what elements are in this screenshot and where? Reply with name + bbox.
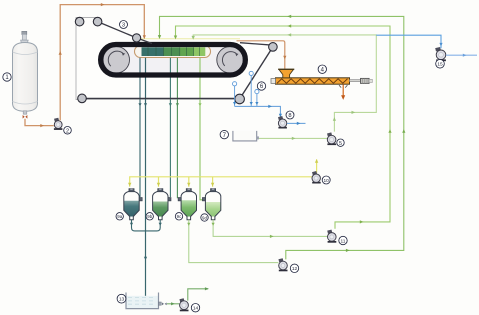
wire wash water to pump 15 [376, 35, 441, 48]
wash line C belt to pump 5 loop [193, 35, 376, 132]
wash spray nozzle b [249, 71, 253, 75]
wire feed vessel to pump 2 [25, 119, 54, 126]
svg-text:5: 5 [339, 141, 342, 147]
pump P15 [435, 47, 446, 61]
svg-text:3: 3 [122, 23, 125, 29]
screw drive bearing [361, 78, 370, 83]
label 7 [220, 130, 228, 138]
svg-text:9c: 9c [177, 214, 182, 219]
pump P11 [327, 230, 336, 243]
svg-text:10: 10 [324, 178, 330, 184]
vacuum drop arrows [128, 183, 214, 187]
receiver 9c [178, 189, 196, 220]
label 8 [286, 111, 294, 119]
wire nozzle drains to filtrate header [235, 76, 257, 107]
cloth path wire discharge diagonal [240, 47, 273, 99]
belt drive roller left [103, 47, 129, 73]
wire receiver 9d to pump 11 [213, 220, 327, 237]
cloth discharge roller 4 [269, 43, 278, 52]
belt filter frame panel [76, 18, 277, 101]
wire cake discharge to screw hopper [237, 41, 285, 69]
label 9d [201, 214, 208, 221]
vacuum pump 10 vent [316, 159, 318, 172]
belt filter U3 interior [101, 45, 246, 76]
cake section 1 [142, 47, 164, 56]
vacuum box capsule [135, 46, 211, 58]
wire trough 7 to pump 5 [259, 137, 327, 139]
label 1 [3, 73, 11, 81]
wire filtrate header to pump 8 [235, 106, 281, 118]
feed vessel T1 [13, 31, 38, 114]
svg-text:9a: 9a [117, 214, 122, 219]
label 5 [337, 139, 344, 147]
receiver 9d [202, 189, 220, 220]
label 9c [175, 213, 182, 220]
filtrate tank 13 [126, 293, 159, 309]
label 9b [146, 213, 153, 220]
wire pump 2 discharge to belt feed [60, 5, 144, 121]
cloth path wire top-right [240, 43, 273, 46]
receiver 9b [153, 189, 171, 220]
wire tank 13 to pump 14 [167, 303, 179, 305]
pump P5 [327, 132, 336, 145]
pump P14 [179, 298, 188, 311]
pump P8 [278, 116, 287, 128]
svg-text:13: 13 [119, 297, 125, 303]
cake section 4 [194, 47, 206, 56]
wash spray nozzle a [233, 82, 237, 86]
feed valve V1 [23, 115, 28, 119]
cake section 3 [180, 47, 194, 56]
wire receiver 9c to pump 12 [189, 220, 279, 263]
wash line A belt to pump 12 loop [160, 16, 404, 259]
tank 13 outlet valve [159, 302, 162, 305]
receiver 9a [124, 189, 142, 220]
screw shaft [350, 80, 361, 82]
svg-text:9b: 9b [147, 214, 152, 219]
label 15 [436, 60, 445, 69]
cloth guide roller 2 [93, 17, 102, 26]
svg-text:2: 2 [66, 128, 69, 134]
svg-text:8: 8 [288, 113, 291, 119]
label 4 [318, 65, 326, 73]
pump P12 [278, 258, 287, 271]
vacuum box top line (yellow) [134, 38, 240, 40]
label 13 [117, 294, 126, 303]
screw conveyor U4 trough [271, 78, 350, 84]
cake section 2 [164, 47, 180, 56]
cake outlet arrow [342, 84, 344, 95]
pump P10 [312, 171, 321, 183]
vacuum drop to receiver 9c [188, 177, 190, 187]
wire pump 14 discharge [188, 289, 208, 301]
label 11 [339, 236, 347, 244]
cloth guide roller 6 [78, 94, 87, 103]
label 6 [257, 82, 265, 90]
svg-text:12: 12 [292, 266, 298, 272]
trough 7 [233, 131, 257, 141]
wire pump 8 discharge [287, 122, 306, 124]
cloth tension roller 5 [235, 94, 245, 104]
filtrate line L1 to receiver 9a [139, 58, 141, 197]
filtrate line L4 to receiver 9c [176, 58, 178, 198]
wire pump 15 discharge [446, 54, 477, 56]
cloth path wire top-left diagonal [98, 22, 152, 44]
svg-text:11: 11 [341, 238, 346, 244]
label 2 [64, 127, 72, 135]
wash spray nozzle c [255, 90, 259, 94]
svg-text:14: 14 [193, 306, 199, 312]
label 3 [120, 21, 128, 29]
wash line B belt to pump 11 loop [176, 26, 391, 229]
vacuum drop to receiver 9b [158, 177, 160, 187]
screw hopper [279, 69, 294, 78]
label 9a [116, 213, 123, 220]
label 14 [191, 304, 199, 312]
filtrate line L3 to receiver 9b [169, 58, 171, 197]
cloth guide roller 3 [133, 34, 141, 42]
filtrate line L2 (mother filtrate to tank 13) [145, 58, 147, 299]
belt loop band [101, 45, 246, 76]
vacuum header to pump 10 [130, 177, 312, 187]
label 12 [290, 264, 298, 272]
pump P2 [54, 118, 63, 130]
vacuum drop to receiver 9d [212, 177, 214, 187]
svg-text:9d: 9d [202, 215, 207, 220]
belt drive roller right [217, 47, 243, 73]
wire receivers 9a 9b outlet manifold [132, 220, 161, 231]
cake section separators [148, 47, 200, 56]
cloth guide roller 1 [75, 17, 84, 26]
cloth path wire bottom return [82, 97, 240, 99]
label 10 [322, 176, 330, 184]
filtrate line L5 to receiver 9d [200, 58, 203, 200]
svg-text:15: 15 [437, 62, 443, 68]
